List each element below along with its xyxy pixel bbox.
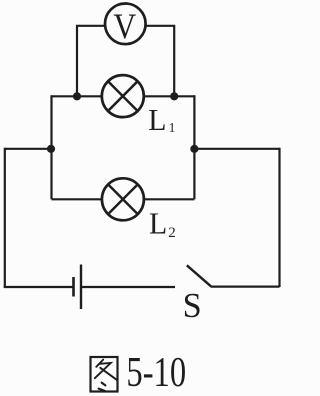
svg-text:S: S — [183, 287, 202, 325]
svg-text:1: 1 — [169, 120, 176, 135]
svg-text:L: L — [148, 102, 166, 137]
svg-text:2: 2 — [168, 225, 176, 241]
svg-text:V: V — [113, 7, 136, 46]
svg-text:L: L — [149, 206, 167, 241]
svg-text:5-10: 5-10 — [126, 350, 186, 396]
